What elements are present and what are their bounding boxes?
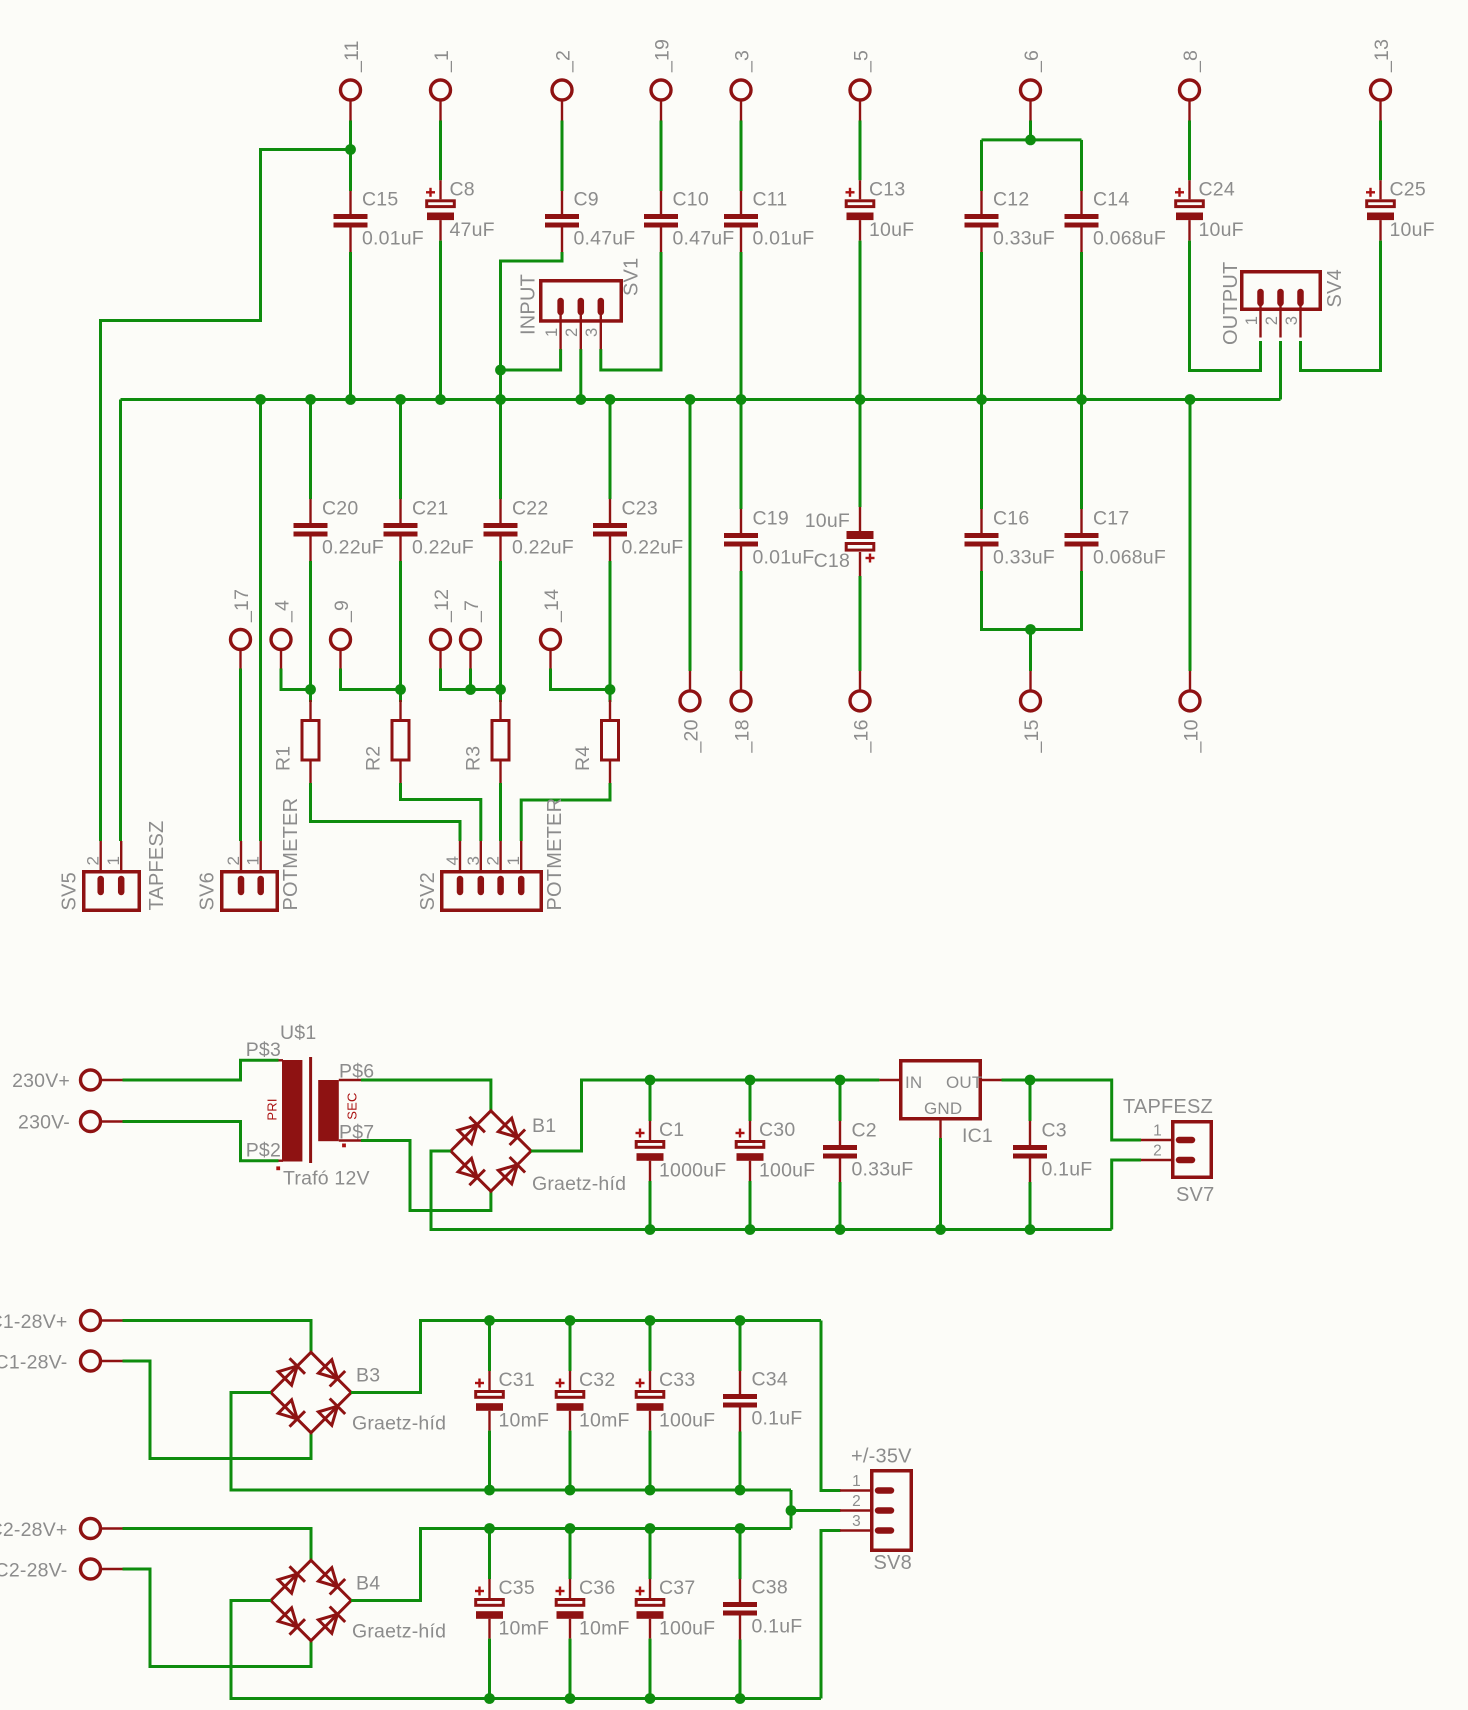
wire bus to C19: [740, 400, 743, 510]
svg-text:U$1: U$1: [280, 1022, 316, 1044]
connector SV1: [541, 281, 622, 349]
pin stub _3: [740, 100, 742, 121]
wire R3 to SV2 pin2: [499, 783, 502, 841]
svg-text:C16: C16: [993, 508, 1029, 530]
junction: [645, 1693, 656, 1704]
label _20: [681, 719, 703, 753]
label _9: [331, 600, 353, 623]
pin: [859, 180, 861, 199]
wire node to bus: [499, 370, 502, 400]
pin: [488, 1371, 490, 1390]
pin: [561, 191, 563, 214]
svg-text:SEC: SEC: [345, 1092, 360, 1119]
wire C34 to bus: [739, 1432, 742, 1491]
svg-text:0.22uF: 0.22uF: [622, 537, 684, 559]
label OUT: [946, 1073, 982, 1092]
pin: [488, 1619, 490, 1639]
pin: [649, 1371, 651, 1390]
junction bus: [395, 394, 406, 405]
transformer U$1: [276, 1057, 346, 1170]
pin stub _11: [349, 100, 351, 121]
pin stub _13: [1379, 100, 1381, 121]
pin stub _5: [859, 100, 861, 121]
pin _20 stub: [689, 671, 691, 691]
label _11: [341, 40, 363, 73]
svg-text:10uF: 10uF: [1199, 219, 1244, 241]
wire bus to C38: [739, 1529, 742, 1580]
label C12: [993, 189, 1029, 211]
capacitor C32: [556, 1379, 584, 1411]
svg-text:3: 3: [852, 1513, 861, 1530]
svg-text:Graetz-híd: Graetz-híd: [532, 1173, 626, 1195]
capacitor C37: [636, 1587, 664, 1619]
pin numbers SV4: [1243, 316, 1301, 325]
junction bus: [435, 394, 446, 405]
label _4: [272, 600, 294, 623]
label _8: [1180, 50, 1202, 73]
svg-text:C3: C3: [1042, 1120, 1067, 1142]
svg-text:3: 3: [464, 856, 483, 866]
junction: [484, 1693, 495, 1704]
label P$3: [246, 1039, 281, 1061]
pin: [739, 1371, 741, 1394]
connector SV5: [84, 841, 140, 910]
pin: [839, 1159, 841, 1183]
wire C12 C14 top join: [982, 138, 1082, 141]
label AC1-28V+: [0, 1311, 68, 1333]
pin: [739, 1408, 741, 1432]
svg-text:0.1uF: 0.1uF: [752, 1616, 803, 1638]
svg-text:INPUT: INPUT: [518, 274, 540, 335]
pin: [649, 1579, 651, 1598]
svg-text:10mF: 10mF: [499, 1410, 550, 1432]
value C1 1000uF: [659, 1160, 726, 1182]
bridge rectifier B1: [451, 1111, 531, 1191]
svg-text:SV1: SV1: [621, 258, 643, 296]
label IC1: [962, 1125, 993, 1147]
connector SV7: [1141, 1122, 1211, 1178]
svg-text:SV2: SV2: [417, 872, 439, 910]
pin: [740, 191, 742, 214]
label _1: [431, 50, 453, 73]
capacitor C16: [965, 533, 999, 547]
svg-text:POTMETER: POTMETER: [544, 798, 566, 911]
wire C33 to bus: [649, 1431, 652, 1490]
svg-text:0.1uF: 0.1uF: [1042, 1159, 1093, 1181]
wire C14 to bus: [1080, 252, 1083, 400]
junction: [735, 1485, 746, 1496]
pad _20: [680, 691, 700, 711]
pin: [499, 761, 501, 783]
label C20: [322, 498, 358, 520]
svg-text:2: 2: [84, 856, 103, 866]
junction: [565, 1485, 576, 1496]
svg-text:_8: _8: [1180, 50, 1202, 73]
value C34 0.1uF: [752, 1408, 803, 1430]
pin: [399, 499, 401, 523]
pad _17: [231, 630, 251, 650]
svg-text:_13: _13: [1371, 39, 1393, 73]
label _15: [1021, 719, 1043, 753]
pin _15 stub: [1029, 671, 1031, 691]
wire SV7 pin2 to bus: [1112, 1160, 1141, 1230]
wire B1 left to bottom bus: [431, 1151, 1112, 1230]
pin: [399, 761, 401, 783]
label R3: [463, 746, 485, 771]
wire C9 to SV1 pin1: [501, 252, 563, 370]
pad _18: [731, 691, 751, 711]
capacitor C10: [644, 214, 678, 228]
wire _7 to R3: [471, 669, 501, 690]
svg-text:SV5: SV5: [59, 872, 81, 910]
capacitor C11: [724, 214, 758, 228]
wire bus to C36: [569, 1529, 572, 1580]
svg-text:C9: C9: [574, 189, 599, 211]
label C23: [622, 498, 658, 520]
connector SV4: [1242, 272, 1321, 338]
wire _3 to C11: [740, 121, 743, 192]
svg-text:0.47uF: 0.47uF: [673, 228, 735, 250]
pin _18 stub: [740, 671, 742, 691]
svg-text:TAPFESZ: TAPFESZ: [146, 821, 168, 911]
pin: [488, 1579, 490, 1598]
resistor R1: [302, 721, 319, 761]
svg-text:1: 1: [1243, 316, 1261, 325]
wire bus to C18: [859, 400, 862, 508]
value C18 10uF: [805, 510, 850, 532]
pin: [569, 1579, 571, 1598]
svg-text:C20: C20: [322, 498, 358, 520]
pin stub _12: [439, 650, 441, 669]
resistor R4: [602, 721, 619, 761]
pad _8: [1180, 80, 1200, 100]
wire _11 to C15: [349, 121, 352, 192]
pin: [649, 1161, 651, 1181]
junction bottom bus: [1025, 1224, 1036, 1235]
value C22 0.22uF: [512, 537, 574, 559]
label IN: [905, 1073, 922, 1092]
wire OUT to SV7 pin1: [1002, 1080, 1142, 1140]
svg-text:_20: _20: [681, 719, 703, 753]
wire bus to C21: [399, 400, 402, 500]
svg-text:TAPFESZ: TAPFESZ: [1123, 1096, 1213, 1118]
svg-text:47uF: 47uF: [450, 219, 495, 241]
svg-text:_15: _15: [1021, 719, 1043, 753]
capacitor C19: [724, 533, 758, 547]
wire B4 right to top bus: [351, 1529, 791, 1601]
value C13 10uF: [869, 219, 914, 241]
pin: [740, 228, 742, 253]
svg-text:1: 1: [244, 856, 263, 866]
value C36 10mF: [579, 1618, 630, 1640]
label P$6: [339, 1061, 374, 1083]
wire to C14: [1080, 140, 1083, 191]
svg-text:C25: C25: [1390, 178, 1426, 200]
wire C37 to bus: [649, 1639, 652, 1699]
pin stub _17: [239, 650, 241, 669]
pin: [309, 761, 311, 783]
pad _16: [850, 691, 870, 711]
svg-text:1000uF: 1000uF: [659, 1160, 726, 1182]
label _16: [851, 719, 873, 753]
svg-text:C13: C13: [869, 178, 905, 200]
svg-text:SV7: SV7: [1176, 1184, 1214, 1206]
svg-text:0.22uF: 0.22uF: [512, 537, 574, 559]
junction bottom bus: [745, 1224, 756, 1235]
wire GND to bus: [939, 1138, 942, 1230]
svg-text:_7: _7: [461, 600, 483, 623]
pin: [499, 537, 501, 562]
svg-text:GND: GND: [924, 1099, 962, 1118]
label PRI: [265, 1098, 280, 1120]
wire mid link: [790, 1490, 793, 1529]
svg-text:2: 2: [1263, 316, 1281, 325]
svg-text:10uF: 10uF: [1390, 219, 1435, 241]
capacitor C20: [294, 523, 328, 537]
pad _1: [431, 80, 451, 100]
wire AC2-28V- to B4 bottom: [123, 1569, 312, 1667]
svg-text:_18: _18: [732, 719, 754, 753]
wire _19 to C10: [660, 121, 663, 192]
capacitor C15: [334, 214, 368, 228]
wire C35 to bus: [488, 1639, 491, 1699]
svg-text:0.01uF: 0.01uF: [753, 547, 815, 569]
capacitor C33: [636, 1379, 664, 1411]
wire B4 left to bottom bus: [231, 1601, 821, 1699]
pin stub _6: [1029, 100, 1031, 121]
capacitor C8: [426, 188, 454, 220]
junction bus: [1185, 394, 1196, 405]
pad AC1-28V-: [81, 1351, 101, 1371]
label _13: [1371, 39, 1393, 73]
svg-text:100uF: 100uF: [659, 1618, 715, 1640]
capacitor C25: [1366, 188, 1394, 220]
pin stub 230V+: [100, 1079, 122, 1081]
pin stub AC2-28V-: [100, 1568, 122, 1570]
value C11 0.01uF: [753, 228, 815, 250]
svg-text:230V-: 230V-: [18, 1112, 70, 1134]
pin: [609, 700, 611, 719]
value C12 0.33uF: [993, 228, 1055, 250]
label SV5: [59, 872, 81, 910]
label C18: [814, 550, 850, 572]
pin stub _1: [439, 100, 441, 121]
svg-text:B1: B1: [532, 1115, 556, 1137]
svg-text:Trafó 12V: Trafó 12V: [283, 1168, 370, 1190]
svg-text:0.068uF: 0.068uF: [1093, 228, 1166, 250]
wire C38 to bus: [739, 1640, 742, 1699]
value C30 100uF: [759, 1160, 815, 1182]
junction: [645, 1315, 656, 1326]
wire C32 to bus: [569, 1431, 572, 1490]
label _19: [652, 39, 674, 73]
pin P$2: [279, 1159, 284, 1161]
label C14: [1093, 189, 1129, 211]
pin numbers SV8: [852, 1473, 861, 1530]
junction bus: [305, 394, 316, 405]
pin numbers SV1: [543, 328, 601, 337]
pad _14: [541, 630, 561, 650]
label C13: [869, 178, 905, 200]
junction: [645, 1485, 656, 1496]
wire _9 to R2: [341, 669, 401, 690]
svg-text:R1: R1: [273, 746, 295, 771]
wire C11 to bus: [740, 252, 743, 400]
value C31 10mF: [499, 1410, 550, 1432]
svg-text:_2: _2: [553, 50, 575, 73]
wire C16 join: [982, 571, 1082, 630]
junction bus: [976, 394, 987, 405]
pad _15: [1021, 691, 1041, 711]
junction top bus: [745, 1075, 756, 1086]
wire bus to SV6 pin1: [259, 400, 262, 842]
svg-text:R2: R2: [363, 746, 385, 771]
svg-text:AC1-28V-: AC1-28V-: [0, 1352, 68, 1374]
svg-text:PRI: PRI: [265, 1098, 280, 1120]
junction bus: [495, 394, 506, 405]
svg-text:4: 4: [443, 856, 462, 866]
capacitor C35: [475, 1587, 503, 1619]
junction: [484, 1523, 495, 1534]
capacitor C9: [545, 214, 579, 228]
pin: [609, 690, 612, 703]
junction: [735, 1315, 746, 1326]
capacitor C21: [384, 523, 418, 537]
wire bus to _20: [689, 400, 692, 672]
pin stub _2: [561, 100, 563, 121]
wire C25 to SV4 pin3: [1301, 241, 1381, 371]
svg-text:C32: C32: [579, 1369, 615, 1391]
label P$7: [339, 1122, 374, 1144]
wire _4 to R1: [281, 669, 311, 690]
svg-text:C24: C24: [1199, 178, 1235, 200]
label C35: [499, 1577, 535, 1599]
pin stub _9: [339, 650, 341, 669]
pin: [569, 1619, 571, 1639]
label C32: [579, 1369, 615, 1391]
svg-text:B4: B4: [356, 1573, 380, 1595]
wire R2 to SV2 pin3: [401, 783, 481, 841]
svg-text:10mF: 10mF: [579, 1618, 630, 1640]
svg-text:10uF: 10uF: [869, 219, 914, 241]
svg-text:Graetz-híd: Graetz-híd: [352, 1413, 446, 1435]
wire top bus to SV8 pin1: [821, 1321, 841, 1491]
svg-text:1: 1: [504, 856, 523, 866]
svg-text:1: 1: [1153, 1123, 1162, 1140]
label C21: [412, 498, 448, 520]
wire bus to C23: [609, 400, 612, 500]
svg-text:C21: C21: [412, 498, 448, 520]
svg-text:C10: C10: [673, 189, 709, 211]
wire C3 to bus: [1029, 1182, 1032, 1230]
svg-text:POTMETER: POTMETER: [280, 798, 302, 911]
pin C10 bottom: [660, 228, 662, 253]
label C9: [574, 189, 599, 211]
junction C16/C17: [1025, 624, 1036, 635]
svg-text:0.01uF: 0.01uF: [362, 228, 424, 250]
pin: [980, 509, 982, 533]
pin: [1029, 1121, 1031, 1145]
wire P$7 to B1 bottom: [361, 1141, 491, 1211]
pin: [309, 690, 312, 703]
svg-text:C14: C14: [1093, 189, 1129, 211]
capacitor C3: [1013, 1145, 1047, 1159]
pad AC2-28V-: [81, 1559, 101, 1579]
pin: [309, 700, 311, 719]
junction bus: [345, 394, 356, 405]
capacitor C30: [736, 1129, 764, 1161]
label _5: [851, 50, 873, 73]
junction: [735, 1523, 746, 1534]
junction bus: [575, 394, 586, 405]
junction: [565, 1523, 576, 1534]
wire to SV1 pin1: [501, 349, 561, 370]
label _3: [732, 50, 754, 73]
label R4: [572, 746, 594, 771]
label B1 Graetz-hid: [532, 1173, 626, 1195]
pin: [609, 537, 611, 562]
wire main bus: [121, 398, 1281, 401]
connector SV8: [840, 1471, 911, 1551]
svg-text:C15: C15: [362, 189, 398, 211]
junction: [645, 1523, 656, 1534]
junction bus: [736, 394, 747, 405]
label INPUT: [518, 274, 540, 335]
wire P$6 to B1 top: [361, 1080, 491, 1110]
value C14 0.068uF: [1093, 228, 1166, 250]
pin: [439, 180, 441, 199]
wire C18 to _16: [859, 576, 862, 671]
svg-text:0.33uF: 0.33uF: [993, 228, 1055, 250]
bridge rectifier B3: [271, 1352, 351, 1432]
pin: [609, 761, 611, 783]
label C25: [1390, 178, 1426, 200]
pin: [569, 1371, 571, 1390]
svg-text:IN: IN: [905, 1073, 922, 1092]
svg-text:_4: _4: [272, 600, 294, 623]
wire C15 to bus: [349, 252, 352, 400]
pin: [609, 499, 611, 523]
wire B3 left to bottom bus: [231, 1393, 791, 1491]
wire bus to C2: [839, 1080, 842, 1121]
pin: [569, 1411, 571, 1431]
svg-text:C31: C31: [499, 1369, 535, 1391]
svg-text:AC2-28V-: AC2-28V-: [0, 1560, 68, 1582]
label C1: [659, 1119, 684, 1141]
wire _17 to SV6 pin2: [239, 669, 242, 842]
capacitor C34: [723, 1394, 757, 1408]
wire to C12: [980, 140, 983, 191]
pin stub _14: [549, 650, 551, 669]
wire C2 to bus: [839, 1182, 842, 1230]
svg-text:OUT: OUT: [946, 1073, 982, 1092]
svg-text:R4: R4: [572, 746, 594, 771]
svg-text:10mF: 10mF: [579, 1410, 630, 1432]
svg-text:0.22uF: 0.22uF: [412, 537, 474, 559]
svg-text:0.068uF: 0.068uF: [1093, 547, 1166, 569]
label C34: [752, 1369, 788, 1391]
svg-text:0.22uF: 0.22uF: [322, 537, 384, 559]
svg-text:C37: C37: [659, 1577, 695, 1599]
svg-text:_16: _16: [851, 719, 873, 753]
svg-text:C2: C2: [852, 1120, 877, 1142]
svg-text:0.47uF: 0.47uF: [574, 228, 636, 250]
label C36: [579, 1577, 615, 1599]
label C3: [1042, 1120, 1067, 1142]
svg-text:10mF: 10mF: [499, 1618, 550, 1640]
wire _13 to C25: [1379, 121, 1382, 181]
label C31: [499, 1369, 535, 1391]
